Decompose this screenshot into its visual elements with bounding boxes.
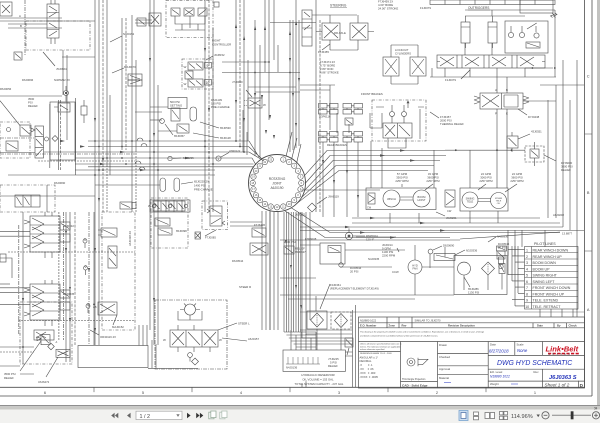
layout icon continuous xyxy=(474,412,479,415)
wire joint lower diag 2 xyxy=(284,211,450,238)
wire lockout xyxy=(391,45,418,84)
pilot valve 3 xyxy=(93,302,117,315)
rotating joint label xyxy=(269,177,286,190)
valve under accumulator xyxy=(177,124,189,133)
pump circle SWING TELE xyxy=(462,192,478,208)
valve N4J0335 xyxy=(320,243,345,267)
wire x240 xyxy=(239,0,241,147)
J6J8152 box 10 xyxy=(205,80,212,86)
label 57 GPM xyxy=(395,172,409,183)
leader F7J0085 xyxy=(205,230,216,236)
wire stubs into title channel xyxy=(302,352,353,387)
svg-text:13.8877: 13.8877 xyxy=(562,232,573,236)
test point circle a xyxy=(83,239,87,248)
svg-text:Unless otherwise specified dim: Unless otherwise specified dimensions ar… xyxy=(360,343,402,346)
wire bottom left y347 xyxy=(0,346,34,348)
wire middle verticals xyxy=(262,211,278,330)
wire y190 xyxy=(300,189,380,191)
valve block top-left corner xyxy=(0,2,12,16)
svg-text:9: 9 xyxy=(207,64,209,68)
svg-text:Weight: Weight xyxy=(490,382,499,386)
middle dashed enclosure B xyxy=(202,201,228,230)
leader 3500 psi relief bottom xyxy=(20,341,41,371)
wire x70 xyxy=(69,212,71,362)
svg-text:65J0128: 65J0128 xyxy=(220,136,231,140)
bus-to-port connectors xyxy=(249,141,265,165)
prev view icon xyxy=(209,411,216,419)
next view icon xyxy=(220,411,227,419)
title block outline xyxy=(359,317,585,388)
bus wire y161 dashed xyxy=(38,160,135,162)
prev page button xyxy=(127,413,131,419)
svg-text:N6J0335: N6J0335 xyxy=(63,292,75,296)
enclosure J6J8152 xyxy=(182,59,213,89)
wire x136 lower xyxy=(135,150,137,212)
wire x110 xyxy=(109,95,111,175)
axle cylinder left xyxy=(316,23,340,40)
svg-text:Third Angle Projection: Third Angle Projection xyxy=(402,378,426,381)
test circles second ring xyxy=(84,238,89,305)
brake valve D3P6116 xyxy=(345,118,353,125)
svg-text:J9A0119: J9A0119 xyxy=(328,195,339,199)
svg-text:F1J0079: F1J0079 xyxy=(445,78,456,82)
pilot valve 1 xyxy=(98,228,117,237)
svg-text:Scale: Scale xyxy=(517,343,524,347)
wire joint right fan 5 xyxy=(297,171,428,204)
dashed enclosure J5J0664 xyxy=(26,21,90,50)
lockout cylinder left xyxy=(383,57,399,84)
wire y57 xyxy=(62,56,95,58)
svg-text:65J0627: 65J0627 xyxy=(295,250,306,254)
controller valve 1 xyxy=(171,8,180,16)
wire x136 xyxy=(135,60,137,150)
component cluster right FTJ6136 xyxy=(252,228,266,237)
svg-text:1 / 2: 1 / 2 xyxy=(140,414,151,420)
svg-text:OR30116 4X: OR30116 4X xyxy=(100,335,116,339)
svg-text:B: B xyxy=(506,88,508,92)
svg-text:REFERENCE ASME Y14.5 - 2009: REFERENCE ASME Y14.5 - 2009 xyxy=(360,352,392,355)
wire manifold bottom xyxy=(430,68,556,77)
svg-text:and details contained herein i: and details contained herein is prohibit… xyxy=(360,335,438,338)
wire y62 xyxy=(222,61,269,63)
check valve under steer xyxy=(188,353,193,362)
svg-text:ANGULAR ± 1°: ANGULAR ± 1° xyxy=(360,356,379,360)
svg-text:A6J0202: A6J0202 xyxy=(553,213,564,217)
manifold spool row xyxy=(148,201,185,211)
tolerance divider xyxy=(359,352,438,382)
bus wire y158 xyxy=(75,157,252,159)
check valve 61J0295 xyxy=(168,156,181,160)
wire brake drops xyxy=(323,142,358,217)
wire y222 stub xyxy=(230,221,262,223)
relief valve spring xyxy=(37,335,50,345)
leader U6J6472 xyxy=(46,357,58,377)
wire joint right fan 3 xyxy=(305,161,441,191)
svg-text:4.86" STROKE: 4.86" STROKE xyxy=(320,71,339,75)
arrows on bus xyxy=(60,140,190,171)
valve in left dashed box xyxy=(6,141,18,151)
zoom slider track xyxy=(552,414,591,416)
svg-text:61J0295: 61J0295 xyxy=(183,156,194,160)
filter diamond in box xyxy=(482,262,495,275)
wire y90 right xyxy=(523,100,556,102)
wire x75.7 xyxy=(75,98,77,175)
svg-text:B: B xyxy=(587,190,590,195)
wire bottom connector xyxy=(300,290,352,338)
leader J7J0900 xyxy=(246,90,252,97)
port diagonals up-right xyxy=(286,132,301,164)
J6J8152 box 9 xyxy=(205,63,212,69)
svg-text:6: 6 xyxy=(44,390,46,395)
wire x60.3 xyxy=(59,100,61,170)
fan circuit box xyxy=(454,256,507,295)
bus wire y154 dashdot xyxy=(0,153,135,155)
svg-text:TELE. EXTEND: TELE. EXTEND xyxy=(533,299,559,303)
zone tick marks right xyxy=(585,134,593,251)
wire table-to-title verticals xyxy=(540,309,577,317)
valve J7J0900 xyxy=(244,98,266,108)
wire y20 right stub xyxy=(135,19,152,21)
svg-text:.XXXX ± .0005: .XXXX ± .0005 xyxy=(360,375,379,379)
svg-text:43J0551: 43J0551 xyxy=(531,130,542,134)
D box xyxy=(577,381,579,388)
svg-text:HYDRAULIC RESERVOIR: HYDRAULIC RESERVOIR xyxy=(301,373,334,377)
wire y223 xyxy=(352,222,560,224)
page number box xyxy=(136,411,182,419)
wire x58.9 dashed xyxy=(58,212,60,340)
svg-text:AB: AB xyxy=(93,305,97,309)
svg-text:D3P6116: D3P6116 xyxy=(319,115,331,119)
thermal relief check b xyxy=(402,112,407,117)
wire vertical bus x103 xyxy=(102,0,104,212)
svg-text:SETTING: SETTING xyxy=(170,104,182,108)
wire y85 left xyxy=(300,85,335,90)
svg-text:9: 9 xyxy=(526,299,528,303)
elbow wire y284 xyxy=(0,283,10,285)
comp N3J0336 xyxy=(434,254,455,261)
arrows right fan xyxy=(345,149,445,238)
spool valve stack C partial xyxy=(34,330,54,340)
comp N4J0336 spring valve xyxy=(497,246,507,251)
accumulator capsule D6J1139 xyxy=(190,107,197,121)
svg-text:2: 2 xyxy=(436,390,438,395)
wire y23 right stub xyxy=(135,22,152,24)
leader MAJ0152 xyxy=(113,315,117,325)
svg-text:5: 5 xyxy=(142,390,144,395)
wire x290 xyxy=(289,20,291,152)
svg-text:J7J0900: J7J0900 xyxy=(232,80,243,84)
wire x126 xyxy=(125,18,127,150)
svg-text:REAR BRAKES: REAR BRAKES xyxy=(327,143,347,147)
pilot lines table xyxy=(525,247,579,310)
dashed box left column xyxy=(0,122,30,158)
zone tick marks bottom xyxy=(94,387,486,392)
junction dots bus mid xyxy=(22,140,245,348)
rotating joint port numbers xyxy=(251,158,302,209)
comp D3J0544 right xyxy=(497,251,505,259)
wire right cluster verticals xyxy=(508,230,545,256)
svg-text:FTJ6136: FTJ6136 xyxy=(254,223,265,227)
sub valve 2 xyxy=(158,228,172,235)
wire x556 xyxy=(555,85,557,218)
wire y218 xyxy=(352,217,540,219)
valve D7J0438 xyxy=(474,77,529,188)
svg-text:Approval: Approval xyxy=(439,367,450,371)
thermal relief check a xyxy=(390,112,395,117)
spool A operator box 2 xyxy=(60,234,70,242)
valve 65J0627 xyxy=(250,243,268,255)
wire tank outlet xyxy=(148,340,198,369)
svg-text:SWING RIGHT: SWING RIGHT xyxy=(533,274,558,278)
pilot valve 2 vertical xyxy=(108,246,117,268)
pump box right xyxy=(460,188,508,211)
svg-text:DWG HYD SCHEMATIC: DWG HYD SCHEMATIC xyxy=(497,360,573,367)
svg-text:2257 RPM: 2257 RPM xyxy=(510,179,524,183)
wire vertical bus x209 xyxy=(208,0,210,212)
axle cylinder right xyxy=(350,23,374,40)
test point circle b xyxy=(84,266,88,275)
toolbar body xyxy=(0,410,600,423)
X-valve small xyxy=(195,232,201,239)
wire y227 xyxy=(300,226,563,228)
svg-text:E.O. Number: E.O. Number xyxy=(360,323,376,327)
junction dots y150 xyxy=(455,149,513,151)
wire vertical bus x107 xyxy=(106,0,108,165)
svg-text:Sheet 1 of 2: Sheet 1 of 2 xyxy=(545,382,570,387)
main column lines xyxy=(401,342,543,389)
wire y96 xyxy=(0,95,62,97)
small comp right stub xyxy=(137,18,146,26)
svg-text:D6J0690: D6J0690 xyxy=(54,181,66,185)
dashed box bottom-left of quadrant1 xyxy=(0,185,55,212)
svg-text:A: A xyxy=(19,14,21,18)
svg-text:RELIEF: RELIEF xyxy=(328,364,338,368)
wire x47 stub xyxy=(46,185,48,212)
svg-text:FRONT WINCH DOWN: FRONT WINCH DOWN xyxy=(533,286,571,290)
svg-text:65J0098: 65J0098 xyxy=(176,229,187,233)
label 65J0286 leader xyxy=(464,277,470,287)
lockout cylinder right xyxy=(410,57,426,84)
wire vertical bus x99 xyxy=(98,0,100,345)
relief 43J0551 xyxy=(507,132,518,152)
svg-text:RELIEF: RELIEF xyxy=(28,104,38,108)
wire x316 xyxy=(315,0,317,212)
svg-text:3: 3 xyxy=(526,261,528,265)
wire thermal drops xyxy=(371,141,382,188)
svg-text:2257 RPM: 2257 RPM xyxy=(426,179,440,183)
svg-text:J6J0201: J6J0201 xyxy=(295,213,306,217)
zoom dropdown arrow xyxy=(537,415,540,418)
svg-text:SWING LEFT: SWING LEFT xyxy=(533,280,556,284)
material value dash xyxy=(444,382,451,384)
wire y196 xyxy=(0,195,95,197)
dashed pilot box xyxy=(102,212,135,330)
wire y87 xyxy=(248,86,296,88)
leader 65J0530 xyxy=(200,122,219,128)
thermal relief valve xyxy=(383,123,412,138)
wire x107 lower xyxy=(106,165,108,212)
svg-text:6: 6 xyxy=(526,280,528,284)
outrigger cylinder 2 xyxy=(488,16,497,48)
svg-text:65J0530: 65J0530 xyxy=(220,126,231,130)
svg-text:EO. Level: EO. Level xyxy=(490,370,503,374)
wire x255 xyxy=(254,20,256,156)
svg-text:Checked: Checked xyxy=(439,355,450,359)
wire left column verticals xyxy=(302,212,310,300)
controller plumbing xyxy=(175,16,205,30)
third angle projection symbol xyxy=(407,358,428,366)
svg-text:TELE. RETRACT: TELE. RETRACT xyxy=(533,305,562,309)
leader D7J6080 xyxy=(544,155,556,161)
wire bottom left xyxy=(0,366,34,374)
manifold block bottom xyxy=(150,200,190,212)
wire pilot bundle verticals xyxy=(508,246,518,306)
svg-text:FRONT WINCH UP: FRONT WINCH UP xyxy=(533,292,565,296)
rear brake symbols xyxy=(319,132,363,143)
svg-text:FRONT BRAKES: FRONT BRAKES xyxy=(361,92,383,96)
sheet outer border right xyxy=(591,0,593,396)
svg-text:J5J0664: J5J0664 xyxy=(56,67,67,71)
svg-text:C: C xyxy=(587,74,590,79)
svg-text:10: 10 xyxy=(525,305,529,309)
rotating joint outer circle xyxy=(249,155,306,212)
leader N3J0336 xyxy=(455,250,465,255)
orbital housing xyxy=(178,311,202,320)
controller valve 3 xyxy=(198,8,207,16)
enclosure rect mid-left xyxy=(50,102,75,160)
svg-text:65J0057: 65J0057 xyxy=(174,134,185,138)
svg-text:JAJ0338 2X: JAJ0338 2X xyxy=(128,231,132,246)
page dropdown arrow xyxy=(176,414,179,417)
pump circle WINCH xyxy=(383,190,400,207)
dashed pilot line y320.5 xyxy=(18,320,135,322)
svg-text:RELIEF: RELIEF xyxy=(4,376,14,380)
svg-text:7: 7 xyxy=(526,286,528,290)
wire joint right fan 2 xyxy=(306,156,447,184)
wire y230.5 xyxy=(300,230,584,232)
svg-text:N4J0335: N4J0335 xyxy=(368,257,380,261)
bus wire y164 xyxy=(75,163,254,165)
layout icon two-up xyxy=(485,413,489,419)
wire x89 xyxy=(88,212,90,345)
svg-text:3: 3 xyxy=(338,390,340,395)
wire right bus cluster xyxy=(284,212,301,332)
svg-text:BOOM UP: BOOM UP xyxy=(533,267,551,271)
wire y166.8 xyxy=(88,166,253,168)
leader 65J0128 xyxy=(193,133,219,138)
small comp left column xyxy=(14,52,22,60)
revision column lines xyxy=(387,317,567,328)
label 24 GPM a xyxy=(479,172,493,183)
accumulator valve block xyxy=(171,108,180,121)
leader F0J0361 xyxy=(320,284,330,309)
wire y18 xyxy=(0,17,62,19)
leader N4J0336 xyxy=(488,237,496,242)
toolbar top border xyxy=(0,405,600,406)
wire below pilot table xyxy=(300,311,584,313)
svg-text:120 °F: 120 °F xyxy=(366,238,375,242)
wire x548 xyxy=(547,100,549,218)
svg-text:DECIMAL: DECIMAL xyxy=(360,359,372,363)
svg-text:THERMAL RELIEF: THERMAL RELIEF xyxy=(440,122,464,126)
leader F1J0079 xyxy=(461,70,470,79)
drawn column rows xyxy=(438,354,489,375)
steering column cylinder xyxy=(302,10,312,46)
svg-text:Link•Belt: Link•Belt xyxy=(546,345,579,354)
svg-text:8/27/2018: 8/27/2018 xyxy=(489,348,509,353)
valve at x150 xyxy=(149,13,161,26)
svg-text:1130 PSI: 1130 PSI xyxy=(468,291,480,295)
wire y150.2 right xyxy=(445,149,525,151)
svg-text:J6J8152: J6J8152 xyxy=(214,53,225,57)
svg-text:WINCH: WINCH xyxy=(387,197,396,201)
zoom out circle xyxy=(542,412,549,419)
up arrows tops xyxy=(235,21,297,40)
svg-text:114.96%: 114.96% xyxy=(511,414,533,420)
arrow marks xyxy=(22,48,359,332)
wire x23 xyxy=(22,212,24,364)
svg-text:.XX ± .06: .XX ± .06 xyxy=(360,367,375,371)
leader 43J0551 xyxy=(518,134,530,139)
wire x66 xyxy=(65,212,67,362)
wire x296 xyxy=(295,0,297,148)
wire x577 xyxy=(576,60,578,310)
leader D7J0438 xyxy=(518,109,527,115)
svg-text:JAJ0332: JAJ0332 xyxy=(63,224,74,228)
J6J8152 valve vertical xyxy=(185,71,193,79)
wire x236 xyxy=(235,0,237,141)
wire fan-out to title xyxy=(284,332,353,347)
wire x122 xyxy=(121,18,123,150)
svg-text:HOIST: HOIST xyxy=(418,198,426,202)
tall spool valve mid-left xyxy=(35,126,44,158)
svg-text:W: W xyxy=(184,65,187,69)
outrigger valve assembly xyxy=(505,21,548,53)
svg-text:CRANES: CRANES xyxy=(549,353,573,356)
layout icon two-up continuous xyxy=(500,412,508,420)
pump circle STEER xyxy=(491,193,507,209)
bus wire y175 xyxy=(8,174,215,176)
leader 65J0220 xyxy=(181,182,193,184)
filter 2 dashed box xyxy=(331,312,351,329)
svg-text:D8J0690: D8J0690 xyxy=(443,244,455,248)
wire y152 left stub xyxy=(0,152,35,154)
filter F0J0361 box xyxy=(307,311,327,329)
svg-text:CCW: CCW xyxy=(392,270,399,274)
svg-text:STEER L: STEER L xyxy=(238,322,250,326)
wire joint lower diag 1 xyxy=(291,208,560,233)
svg-text:Rev: Rev xyxy=(534,370,540,374)
filter diamond under steer xyxy=(192,358,199,365)
svg-text:Check: Check xyxy=(569,323,578,327)
wire x63.3 dashdot xyxy=(62,212,64,340)
svg-text:This drawing is the property o: This drawing is the property of Link-Bel… xyxy=(360,331,484,334)
svg-text:B: B xyxy=(20,24,22,28)
svg-text:Zone: Zone xyxy=(389,323,396,327)
wire fan row xyxy=(280,237,460,267)
wire y24 xyxy=(8,23,47,25)
svg-text:W: W xyxy=(184,82,187,86)
svg-text:N3J0336: N3J0336 xyxy=(466,249,478,253)
spool in dashed box xyxy=(15,195,40,207)
wire stub y107 xyxy=(150,106,168,108)
test point circle c xyxy=(86,304,90,313)
wire x265 xyxy=(264,0,266,72)
svg-text:MAJ0152: MAJ0152 xyxy=(112,325,124,329)
svg-text:D6J0696: D6J0696 xyxy=(22,78,34,82)
wire x75 dashed xyxy=(74,212,76,345)
wire x244 xyxy=(243,0,245,152)
